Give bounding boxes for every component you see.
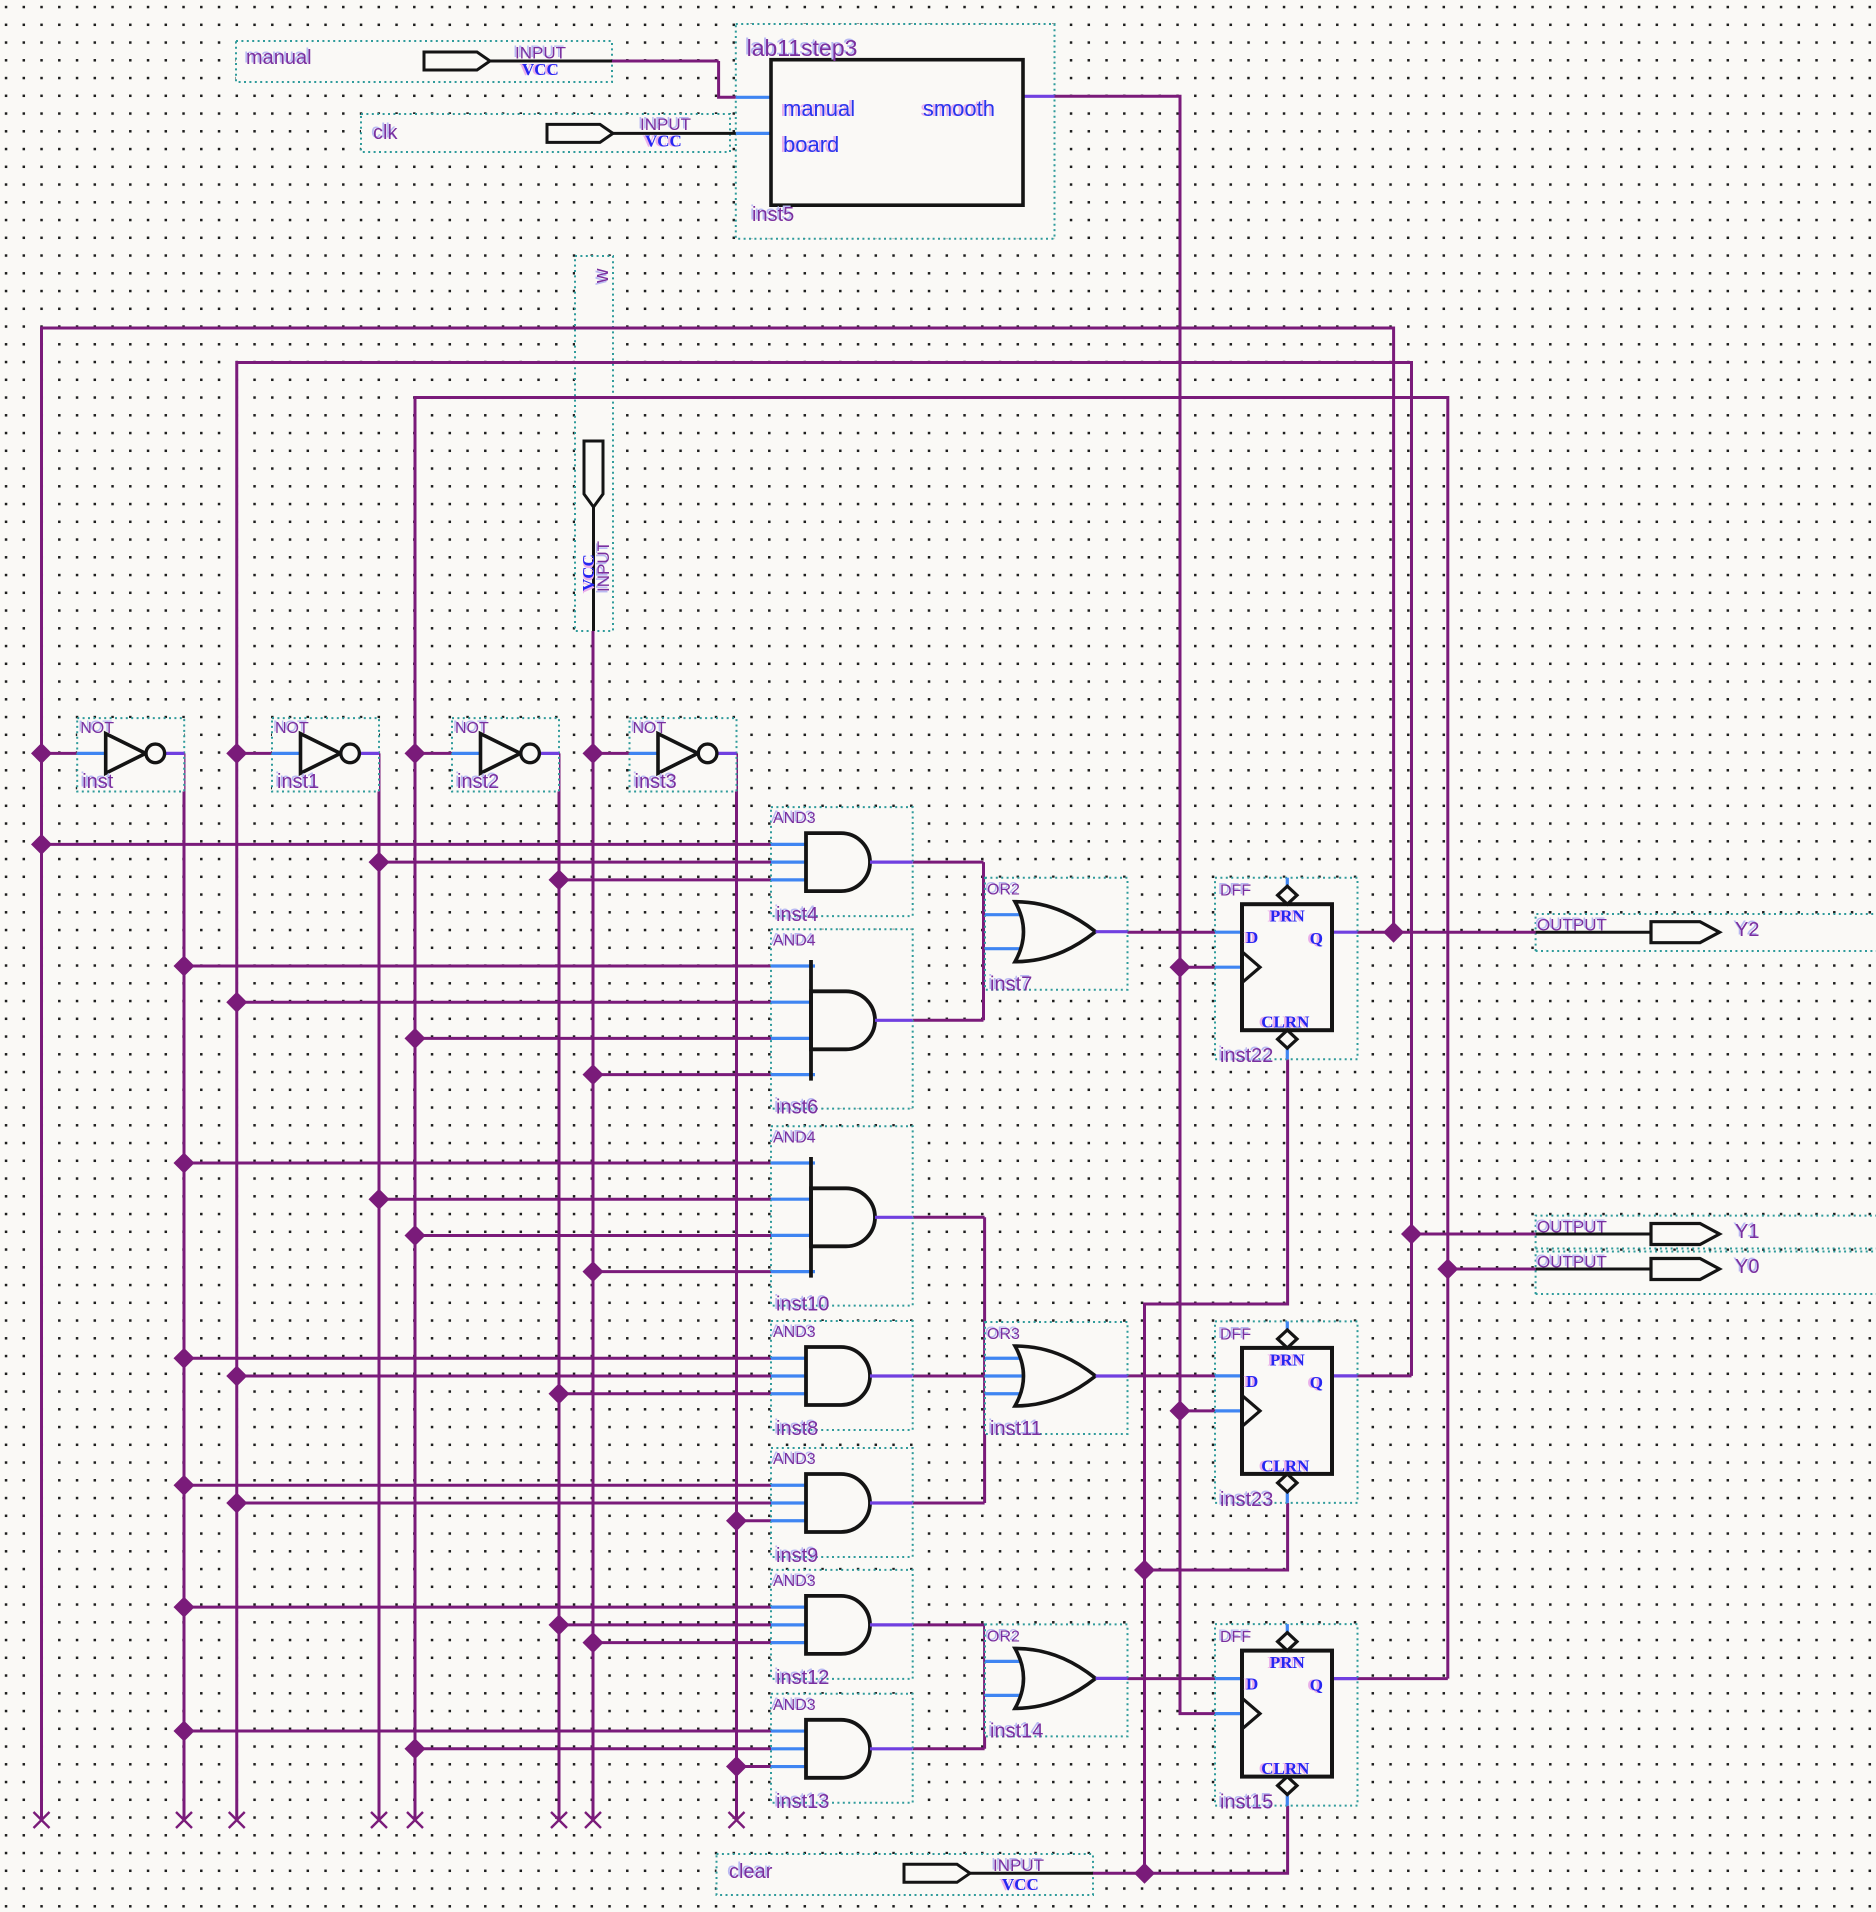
NOT gate inst xyxy=(77,718,184,791)
AND gate inst8 (AND3) xyxy=(771,1321,913,1430)
node: col H / inst13 in3 xyxy=(726,1756,747,1777)
AND gate inst10 (AND4) xyxy=(771,1126,913,1305)
wire: Y1 junction to output pin xyxy=(1412,1233,1536,1236)
svg-text:Q: Q xyxy=(1310,929,1323,948)
wire end terminator col G xyxy=(585,1812,601,1828)
node: col A / NOT inst input xyxy=(31,743,52,764)
wire: OR3 inst11 input riser xyxy=(983,1217,986,1503)
node: col E / inst13 in2 xyxy=(405,1738,426,1759)
wire: inst12 input 3 xyxy=(593,1641,771,1644)
wire: inst9 input 2 xyxy=(237,1502,771,1505)
input pin manual (INPUT VCC) xyxy=(424,52,490,70)
wire: inst13 input 1 xyxy=(184,1730,771,1733)
wire: DFF inst23 Q to Y1 riser xyxy=(1358,1374,1412,1377)
wire: Y0 feedback (column E) xyxy=(415,398,1448,1821)
OR gate inst7 (OR2) xyxy=(985,878,1128,990)
wire: inst4 input 1 xyxy=(42,843,772,846)
input pin "clk" component box xyxy=(361,114,730,152)
D flip-flop inst23 (DFF) xyxy=(1215,1321,1358,1503)
wire end terminator col F xyxy=(551,1812,567,1828)
wire: clear net riser xyxy=(1145,1059,1288,1873)
AND gate inst4 (AND3) xyxy=(771,807,913,916)
node: col B / inst12 in1 xyxy=(174,1597,195,1618)
node: col D / inst10 in2 xyxy=(369,1189,390,1210)
node: col G / inst12 in3 xyxy=(583,1632,604,1653)
svg-text:OR3: OR3 xyxy=(987,1326,1020,1343)
input pin "w" component box xyxy=(575,256,613,631)
svg-text:inst12: inst12 xyxy=(776,1667,829,1689)
svg-text:VCC: VCC xyxy=(522,60,559,79)
svg-text:inst23: inst23 xyxy=(1220,1489,1273,1511)
wire: inst4 input 3 xyxy=(559,878,771,881)
svg-text:board: board xyxy=(783,132,839,157)
node: col G / inst10 in4 xyxy=(583,1261,604,1282)
wire: inst6 input 4 xyxy=(593,1073,771,1076)
wire: inst6 input 1 xyxy=(184,965,771,968)
svg-text:inst: inst xyxy=(82,771,114,793)
node: col B / inst10 in1 xyxy=(174,1153,195,1174)
svg-text:manual: manual xyxy=(246,47,312,69)
D flip-flop inst15 (DFF) xyxy=(1215,1624,1358,1806)
wire: OR2 inst7 output to DFF inst22 D xyxy=(1128,931,1216,934)
svg-text:inst8: inst8 xyxy=(776,1418,818,1440)
wire: inst10 input 3 xyxy=(415,1234,771,1237)
svg-text:D: D xyxy=(1246,1675,1258,1694)
output pin Y2 component box xyxy=(1536,914,1876,951)
output pin Y1 component box xyxy=(1536,1216,1876,1249)
wire: inst13 input 3 xyxy=(737,1765,772,1768)
input pin clear (INPUT VCC) xyxy=(904,1864,970,1882)
svg-text:CLRN: CLRN xyxy=(1261,1456,1310,1475)
svg-text:CLRN: CLRN xyxy=(1261,1759,1310,1778)
svg-text:inst13: inst13 xyxy=(776,1791,829,1813)
NOT gate inst2 xyxy=(452,718,559,791)
wire: column G to NOT inst3 input xyxy=(593,752,630,755)
svg-text:INPUT: INPUT xyxy=(993,1856,1044,1875)
svg-text:D: D xyxy=(1246,1372,1258,1391)
wire: column B (NOT inst output) xyxy=(183,753,186,1820)
svg-text:AND4: AND4 xyxy=(773,932,816,949)
node: Y2 output junction xyxy=(1383,922,1404,943)
node: col F / inst12 in2 xyxy=(549,1614,570,1635)
node: col C / NOT inst1 input xyxy=(226,743,247,764)
svg-text:NOT: NOT xyxy=(80,720,114,737)
svg-text:AND3: AND3 xyxy=(773,810,816,827)
svg-text:OUTPUT: OUTPUT xyxy=(1537,1253,1607,1272)
node: col G / inst6 in4 xyxy=(583,1064,604,1085)
node: col H / inst9 in3 xyxy=(726,1510,747,1531)
input pin w (INPUT VCC, rotated) xyxy=(584,441,603,507)
svg-text:inst6: inst6 xyxy=(776,1097,818,1119)
svg-text:AND3: AND3 xyxy=(773,1451,816,1468)
wire: inst13 output to OR2 inst14 xyxy=(913,1747,985,1750)
wire: DFF inst22 Q to output Y2 xyxy=(1358,931,1536,934)
wire: column D (NOT inst1 output) xyxy=(378,753,381,1820)
svg-text:OUTPUT: OUTPUT xyxy=(1537,916,1607,935)
wire: Y0 junction to output pin xyxy=(1448,1268,1536,1271)
svg-text:inst7: inst7 xyxy=(990,974,1032,996)
wire: column E to NOT inst2 input xyxy=(415,752,452,755)
wire: clk input to lab11step3.board xyxy=(736,132,771,135)
input pin "manual" component box xyxy=(236,41,612,82)
wire: inst12 input 2 xyxy=(559,1623,771,1626)
output pin Y0 xyxy=(1536,1268,1651,1271)
wire: column A to NOT inst input xyxy=(42,752,78,755)
svg-text:Y1: Y1 xyxy=(1735,1221,1759,1243)
svg-text:inst5: inst5 xyxy=(752,204,794,226)
wire end terminator col C xyxy=(229,1812,245,1828)
wire: inst8 input 1 xyxy=(184,1357,771,1360)
svg-text:w: w xyxy=(591,268,613,284)
node: col G / NOT inst3 input xyxy=(583,743,604,764)
wire: clock branch to DFF inst22 xyxy=(1180,966,1215,969)
wire: OR2 inst14 output to DFF inst15 D xyxy=(1128,1677,1216,1680)
wire: inst12 output to OR2 inst14 xyxy=(913,1623,985,1626)
node: col F / inst4 in3 xyxy=(549,869,570,890)
input pin clk (INPUT VCC) xyxy=(547,124,613,142)
svg-text:DFF: DFF xyxy=(1220,1629,1251,1646)
wire: OR2 inst7 input riser xyxy=(982,862,985,1020)
wire: clear branch to DFF inst23 CLRN xyxy=(1145,1503,1288,1570)
wire: inst13 input 2 xyxy=(415,1747,771,1750)
svg-text:lab11step3: lab11step3 xyxy=(747,35,858,61)
OR gate inst11 (OR3) xyxy=(985,1322,1128,1434)
svg-text:OR2: OR2 xyxy=(987,882,1020,899)
wire: column H (NOT inst3 output) xyxy=(735,753,738,1820)
wire: clear branch to DFF inst15 CLRN xyxy=(1145,1806,1288,1874)
svg-text:CLRN: CLRN xyxy=(1261,1013,1310,1032)
node: clear / inst23 branch xyxy=(1134,1560,1155,1581)
svg-text:OR2: OR2 xyxy=(987,1628,1020,1645)
wire end terminator col A xyxy=(34,1812,50,1828)
svg-text:inst3: inst3 xyxy=(635,771,677,793)
node: col E / inst10 in3 xyxy=(405,1225,426,1246)
wire: Y2 feedback (column A) xyxy=(42,328,1394,1820)
svg-text:inst1: inst1 xyxy=(277,771,319,793)
wire: inst6 input 3 xyxy=(415,1037,771,1040)
svg-text:PRN: PRN xyxy=(1270,1653,1306,1672)
node: col E / inst6 in3 xyxy=(405,1028,426,1049)
svg-text:inst22: inst22 xyxy=(1220,1045,1273,1067)
wire end terminator col H xyxy=(729,1812,745,1828)
svg-text:manual: manual xyxy=(783,96,855,121)
AND gate inst6 (AND4) xyxy=(771,929,913,1108)
wire end terminator col E xyxy=(407,1812,423,1828)
wire: inst4 input 2 xyxy=(379,861,771,864)
svg-text:PRN: PRN xyxy=(1270,907,1306,926)
wire: inst8 input 2 xyxy=(237,1375,771,1378)
node: col A / inst4 in1 xyxy=(31,834,52,855)
svg-text:DFF: DFF xyxy=(1220,883,1251,900)
wire: inst10 output to OR3 inst11 xyxy=(913,1216,985,1219)
wire end terminator col B xyxy=(176,1812,192,1828)
NOT gate inst1 xyxy=(272,718,379,791)
node: Y0 output junction xyxy=(1437,1259,1458,1280)
svg-text:PRN: PRN xyxy=(1270,1350,1306,1369)
node: col E / NOT inst2 input xyxy=(405,743,426,764)
svg-text:inst2: inst2 xyxy=(457,771,499,793)
wire: OR2 inst14 input riser xyxy=(983,1625,986,1749)
wire: clock net from lab11step3.smooth xyxy=(1023,95,1055,98)
wire: inst6 input 2 xyxy=(237,1001,771,1004)
node: col B / inst13 in1 xyxy=(174,1721,195,1742)
node: col B / inst8 in1 xyxy=(174,1348,195,1369)
node: col C / inst8 in2 xyxy=(226,1366,247,1387)
output pin Y1 xyxy=(1536,1233,1651,1236)
wire: inst6 output to OR2 inst7 xyxy=(913,1019,984,1022)
svg-text:Y2: Y2 xyxy=(1735,919,1759,941)
node: column G (w) vertical xyxy=(592,753,595,1820)
wire: inst9 input 3 xyxy=(737,1519,772,1522)
wire: inst10 input 1 xyxy=(184,1162,771,1165)
svg-text:NOT: NOT xyxy=(633,720,667,737)
node: col D / inst4 in2 xyxy=(369,852,390,873)
svg-text:inst15: inst15 xyxy=(1220,1792,1273,1814)
wire: inst4 output to OR2 inst7 xyxy=(913,861,984,864)
NOT gate inst3 xyxy=(630,718,737,791)
wire: inst12 input 1 xyxy=(184,1606,771,1609)
svg-text:Q: Q xyxy=(1310,1676,1323,1695)
svg-text:inst10: inst10 xyxy=(776,1294,829,1316)
svg-text:VCC: VCC xyxy=(579,554,598,591)
wire: inst9 input 1 xyxy=(184,1484,771,1487)
svg-text:inst14: inst14 xyxy=(990,1720,1043,1742)
node: clock / inst22 clk xyxy=(1170,957,1191,978)
wire: column F (NOT inst2 output) xyxy=(558,753,561,1820)
OR gate inst14 (OR2) xyxy=(985,1624,1128,1736)
node: clear / inst15 branch xyxy=(1134,1863,1155,1884)
node: col B / inst6 in1 xyxy=(174,956,195,977)
AND gate inst9 (AND3) xyxy=(771,1448,913,1557)
svg-text:VCC: VCC xyxy=(645,132,682,151)
wire: manual input to lab11step3.manual xyxy=(612,60,719,63)
wire: inst8 output to OR3 inst11 xyxy=(913,1375,985,1378)
svg-text:inst9: inst9 xyxy=(776,1545,818,1567)
svg-text:DFF: DFF xyxy=(1220,1326,1251,1343)
wire: w input down to column G xyxy=(592,631,595,753)
D flip-flop inst22 (DFF) xyxy=(1215,878,1358,1059)
wire: inst10 input 4 xyxy=(593,1270,771,1273)
node: col C / inst6 in2 xyxy=(226,992,247,1013)
svg-text:inst11: inst11 xyxy=(990,1418,1042,1440)
AND gate inst13 (AND3) xyxy=(771,1694,913,1803)
svg-text:inst4: inst4 xyxy=(776,904,818,926)
svg-text:Y0: Y0 xyxy=(1735,1256,1759,1278)
node: clock / inst23 clk xyxy=(1170,1400,1191,1421)
svg-text:VCC: VCC xyxy=(1002,1875,1039,1894)
svg-text:OUTPUT: OUTPUT xyxy=(1537,1218,1607,1237)
svg-text:AND3: AND3 xyxy=(773,1697,816,1714)
svg-text:AND4: AND4 xyxy=(773,1129,816,1146)
svg-text:AND3: AND3 xyxy=(773,1324,816,1341)
svg-text:clk: clk xyxy=(373,122,398,144)
svg-text:NOT: NOT xyxy=(275,720,309,737)
AND gate inst12 (AND3) xyxy=(771,1570,913,1679)
wire: clock branch to DFF inst23 xyxy=(1180,1409,1215,1412)
svg-text:smooth: smooth xyxy=(923,96,995,121)
svg-text:D: D xyxy=(1246,928,1258,947)
wire: OR3 inst11 output to DFF inst23 D xyxy=(1128,1374,1216,1377)
node: Y1 output junction xyxy=(1401,1224,1422,1245)
node: col B / inst9 in1 xyxy=(174,1475,195,1496)
wire: column C to NOT inst1 input xyxy=(237,752,272,755)
wire: Y1 feedback (column C) xyxy=(237,363,1412,1821)
node: col F / inst8 in3 xyxy=(549,1383,570,1404)
wire: inst10 input 2 xyxy=(379,1198,771,1201)
wire: DFF inst15 Q to Y0 riser xyxy=(1358,1677,1448,1680)
output pin Y2 xyxy=(1536,931,1651,934)
block lab11step3 (inst5) xyxy=(771,60,1023,206)
wire: clear net from input pin xyxy=(1093,1872,1145,1875)
wire: inst8 input 3 xyxy=(559,1392,771,1395)
input pin "clear" component box xyxy=(717,1854,1094,1895)
svg-text:Q: Q xyxy=(1310,1373,1323,1392)
wire: inst9 output to OR3 inst11 xyxy=(913,1502,985,1505)
output pin Y0 component box xyxy=(1536,1252,1876,1295)
block lab11step3 component box xyxy=(736,24,1055,239)
wire end terminator col D xyxy=(371,1812,387,1828)
svg-text:AND3: AND3 xyxy=(773,1573,816,1590)
svg-text:clear: clear xyxy=(729,1861,773,1883)
svg-text:NOT: NOT xyxy=(455,720,489,737)
node: col C / inst9 in2 xyxy=(226,1493,247,1514)
